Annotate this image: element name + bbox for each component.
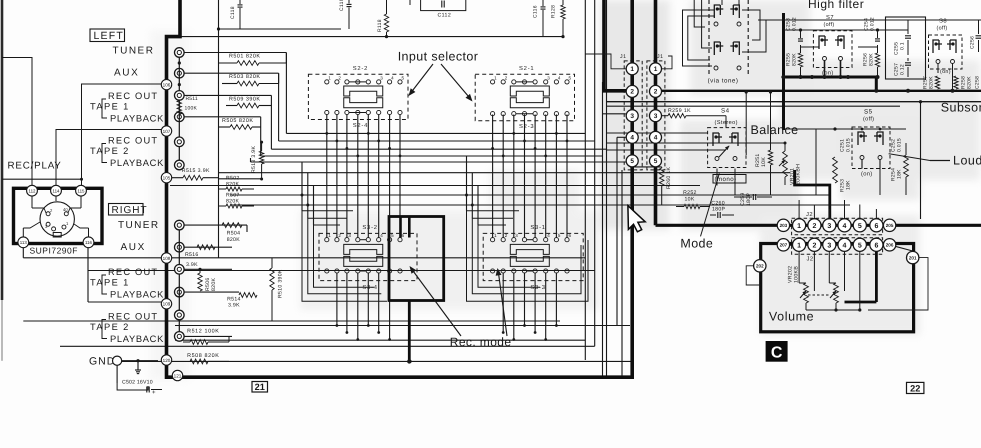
svg-text:High filter: High filter: [808, 0, 864, 11]
svg-text:TAPE 1: TAPE 1: [90, 278, 130, 288]
svg-text:S2-2: S2-2: [353, 65, 368, 72]
svg-text:Subsoni: Subsoni: [941, 101, 981, 115]
svg-text:TAPE 1: TAPE 1: [90, 102, 130, 112]
svg-text:R259 1K: R259 1K: [668, 108, 691, 114]
svg-text:115: 115: [78, 189, 86, 194]
svg-text:REC OUT: REC OUT: [108, 267, 158, 277]
svg-text:SUPI7290F: SUPI7290F: [30, 246, 78, 256]
svg-text:5: 5: [858, 223, 862, 230]
svg-text:PLAYBACK: PLAYBACK: [110, 290, 164, 300]
svg-text:R513 3.9K: R513 3.9K: [251, 146, 257, 173]
svg-text:REC OUT: REC OUT: [108, 91, 158, 101]
svg-text:RIGHT: RIGHT: [112, 205, 148, 216]
svg-text:C256: C256: [970, 36, 976, 49]
svg-text:R516: R516: [185, 252, 199, 258]
svg-text:116: 116: [85, 240, 93, 245]
svg-text:Volume: Volume: [769, 310, 814, 324]
svg-text:820K: 820K: [869, 53, 875, 66]
svg-text:3.9K: 3.9K: [186, 262, 198, 268]
svg-text:2: 2: [812, 223, 816, 230]
svg-text:(Stereo): (Stereo): [715, 119, 738, 126]
svg-text:2: 2: [630, 89, 634, 96]
svg-text:S2-3: S2-3: [519, 123, 534, 130]
svg-text:C: C: [771, 345, 783, 362]
svg-text:R260 1K: R260 1K: [666, 166, 672, 189]
svg-text:REC OUT: REC OUT: [108, 312, 158, 322]
svg-text:R503 820K: R503 820K: [229, 74, 260, 80]
svg-text:C119: C119: [339, 0, 345, 11]
svg-text:200KBH: 200KBH: [796, 164, 802, 185]
svg-text:S3-1: S3-1: [530, 224, 545, 231]
svg-text:C116: C116: [533, 5, 539, 18]
svg-text:R510 390K: R510 390K: [278, 269, 284, 298]
svg-text:105: 105: [163, 176, 171, 181]
svg-text:S2-4: S2-4: [353, 122, 368, 129]
svg-text:REC/PLAY: REC/PLAY: [8, 161, 62, 172]
svg-text:5: 5: [858, 242, 862, 249]
svg-text:J2: J2: [807, 256, 814, 263]
svg-text:PLAYBACK: PLAYBACK: [110, 114, 164, 124]
svg-text:TUNER: TUNER: [113, 46, 155, 57]
svg-text:5: 5: [630, 158, 634, 165]
svg-text:S3-4: S3-4: [362, 284, 377, 291]
svg-text:R505 820K: R505 820K: [222, 118, 253, 124]
svg-text:3: 3: [827, 242, 831, 249]
svg-text:6: 6: [874, 223, 878, 230]
svg-text:2: 2: [812, 242, 816, 249]
svg-text:R512 100K: R512 100K: [187, 329, 219, 335]
svg-text:GND: GND: [89, 356, 115, 368]
svg-text:108: 108: [163, 256, 171, 261]
svg-text:3: 3: [827, 223, 831, 230]
svg-text:820K: 820K: [211, 277, 217, 291]
svg-text:J2: J2: [806, 211, 813, 218]
svg-text:106: 106: [163, 82, 171, 87]
svg-text:1: 1: [630, 66, 634, 73]
svg-text:100K: 100K: [185, 106, 198, 112]
svg-text:0.1: 0.1: [900, 42, 906, 50]
svg-text:R515 3.9K: R515 3.9K: [182, 168, 210, 174]
svg-text:0.015: 0.015: [897, 138, 903, 152]
svg-text:R252: R252: [683, 190, 697, 196]
svg-text:Balance: Balance: [751, 123, 799, 137]
svg-text:40: 40: [63, 207, 68, 212]
svg-text:18K: 18K: [846, 180, 852, 190]
svg-text:S3-2: S3-2: [362, 224, 377, 231]
svg-text:C112: C112: [438, 13, 452, 19]
svg-text:R501 820K: R501 820K: [229, 54, 260, 60]
svg-text:R508 820K: R508 820K: [187, 353, 219, 359]
svg-text:(off): (off): [937, 26, 948, 32]
svg-text:1: 1: [797, 242, 801, 249]
svg-text:(off): (off): [863, 116, 874, 123]
svg-text:PLAYBACK: PLAYBACK: [110, 334, 164, 344]
svg-text:180P: 180P: [746, 192, 752, 206]
svg-text:J1: J1: [620, 54, 626, 60]
svg-text:5: 5: [654, 158, 658, 165]
svg-text:202: 202: [756, 263, 764, 268]
svg-text:201: 201: [909, 255, 917, 260]
svg-text:S5: S5: [864, 109, 873, 116]
svg-text:R509 390K: R509 390K: [229, 96, 260, 102]
svg-text:21: 21: [255, 382, 265, 392]
svg-text:TAPE 2: TAPE 2: [90, 146, 130, 156]
svg-text:113: 113: [20, 240, 28, 245]
svg-text:Mode: Mode: [680, 237, 713, 251]
svg-text:PLAYBACK: PLAYBACK: [110, 158, 164, 168]
svg-text:C118: C118: [230, 6, 236, 19]
svg-text:REC OUT: REC OUT: [108, 136, 158, 146]
svg-text:C258: C258: [975, 76, 981, 89]
svg-text:4: 4: [654, 135, 658, 142]
svg-text:R128: R128: [551, 5, 557, 18]
svg-text:820K: 820K: [967, 76, 973, 89]
svg-text:0.012: 0.012: [870, 17, 876, 31]
svg-text:107: 107: [163, 129, 171, 134]
svg-text:0.015: 0.015: [846, 138, 852, 152]
svg-text:109: 109: [163, 302, 171, 307]
svg-text:10K: 10K: [685, 196, 695, 202]
svg-text:AUX: AUX: [121, 242, 146, 253]
svg-text:+: +: [152, 390, 156, 396]
svg-text:0.012: 0.012: [792, 17, 798, 31]
svg-text:205: 205: [886, 223, 894, 228]
svg-text:4: 4: [630, 135, 634, 142]
svg-text:R511: R511: [186, 96, 198, 102]
svg-text:3: 3: [654, 113, 658, 120]
svg-text:10K: 10K: [761, 157, 767, 167]
svg-text:4: 4: [843, 242, 847, 249]
svg-text:820K: 820K: [792, 53, 798, 66]
svg-text:J1: J1: [657, 54, 663, 60]
svg-text:1: 1: [654, 66, 658, 73]
svg-text:TAPE 2: TAPE 2: [90, 322, 130, 332]
svg-text:C502 16V10: C502 16V10: [122, 380, 153, 386]
svg-text:4: 4: [843, 223, 847, 230]
svg-text:2: 2: [654, 89, 658, 96]
svg-text:(via tone): (via tone): [708, 78, 739, 85]
svg-text:3.9K: 3.9K: [228, 303, 240, 309]
svg-text:180P: 180P: [712, 207, 726, 213]
svg-text:R504: R504: [227, 231, 241, 237]
svg-text:(on): (on): [861, 171, 873, 178]
svg-text:6: 6: [874, 242, 878, 249]
svg-text:S4: S4: [721, 108, 730, 115]
svg-text:22: 22: [910, 383, 920, 393]
svg-text:114: 114: [53, 189, 61, 194]
svg-text:207: 207: [780, 242, 788, 247]
svg-text:3: 3: [630, 113, 634, 120]
svg-text:Input selector: Input selector: [398, 50, 479, 64]
svg-text:(on): (on): [940, 69, 951, 75]
svg-text:820K: 820K: [929, 76, 935, 89]
svg-text:S3-3: S3-3: [530, 284, 545, 291]
svg-text:121: 121: [174, 373, 182, 378]
svg-text:1: 1: [797, 223, 801, 230]
svg-text:LEFT: LEFT: [94, 30, 124, 42]
svg-text:820K: 820K: [226, 199, 240, 205]
svg-text:AUX: AUX: [114, 68, 139, 79]
svg-text:112: 112: [29, 189, 37, 194]
svg-text:120: 120: [163, 358, 171, 363]
svg-text:0.12: 0.12: [900, 64, 906, 75]
svg-text:TUNER: TUNER: [118, 220, 159, 231]
svg-text:S2-1: S2-1: [519, 65, 534, 72]
svg-text:820K: 820K: [227, 237, 241, 243]
svg-text:203: 203: [780, 223, 788, 228]
svg-text:(off): (off): [824, 22, 835, 28]
svg-text:Rec. mode: Rec. mode: [450, 335, 512, 349]
svg-text:18K: 18K: [897, 169, 903, 179]
svg-text:820K: 820K: [226, 182, 240, 188]
svg-text:206: 206: [886, 242, 894, 247]
svg-text:R118: R118: [377, 19, 383, 32]
svg-text:Loud: Loud: [953, 154, 981, 168]
svg-text:S8: S8: [939, 18, 947, 25]
